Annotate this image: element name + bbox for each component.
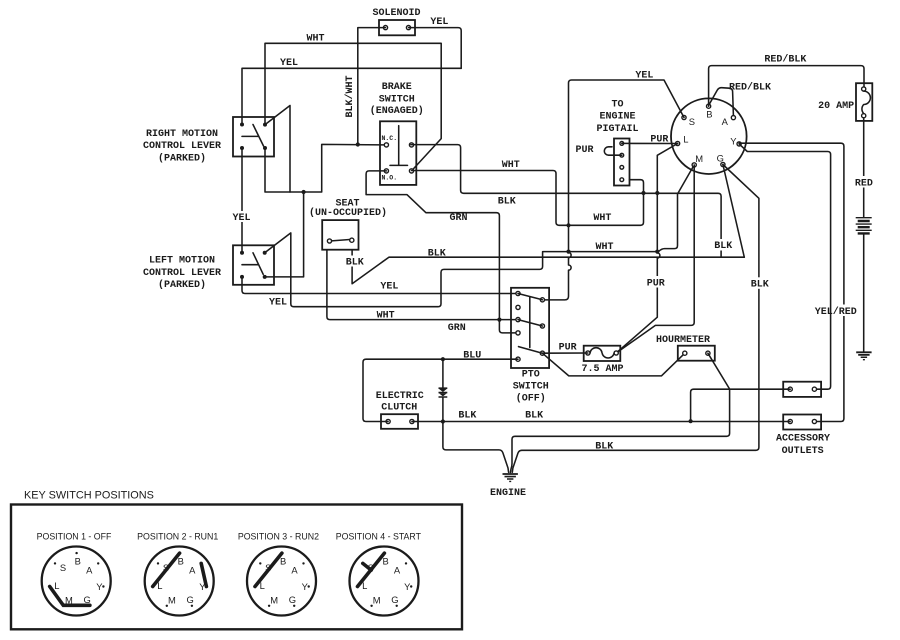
junction dot lever bus	[302, 190, 306, 194]
battery	[856, 217, 872, 235]
wire PUR pigtail t1 to key L	[622, 142, 678, 144]
wire WHT left lever arm to M bus	[265, 165, 695, 307]
junction dot outlet1 on BLK	[689, 419, 693, 423]
wire RED fuse to battery	[863, 118, 865, 218]
svg-text:N.O.: N.O.	[382, 175, 398, 182]
svg-text:KEY SWITCH POSITIONS: KEY SWITCH POSITIONS	[24, 490, 154, 502]
electric clutch	[381, 414, 418, 429]
label TO ENGINE PIGTAIL	[596, 100, 638, 135]
hourmeter	[678, 346, 715, 361]
wire PTO bottom right to hourmeter left	[542, 353, 684, 376]
wire engine funnel right	[512, 450, 522, 472]
svg-text:PIGTAIL: PIGTAIL	[596, 124, 638, 135]
svg-text:RED/BLK: RED/BLK	[729, 82, 771, 94]
svg-text:PUR: PUR	[559, 342, 577, 353]
label LEFT MOTION CONTROL LEVER (PARKED)	[143, 256, 221, 292]
label ACCESSORY OUTLETS	[776, 433, 830, 457]
label ELECTRIC CLUTCH	[376, 391, 424, 414]
junction dot GRN	[497, 318, 501, 322]
svg-text:GRN: GRN	[448, 323, 466, 334]
wire outlet1 left to BLK bus	[691, 389, 791, 421]
svg-text:B: B	[75, 555, 81, 566]
svg-text:S: S	[689, 116, 695, 127]
wire YEL key Y to accessory outlet 1	[739, 144, 831, 389]
svg-text:YEL/RED: YEL/RED	[815, 306, 857, 318]
svg-text:WHT: WHT	[502, 160, 520, 171]
wire BLK seat right down and right	[352, 250, 721, 284]
wire YEL bus to right lever TL	[242, 68, 461, 124]
key terminal labels	[683, 109, 737, 164]
svg-text:(ENGAGED): (ENGAGED)	[370, 105, 424, 117]
ground engine	[503, 473, 518, 482]
svg-text:HOURMETER: HOURMETER	[656, 335, 710, 346]
key terminal L	[676, 141, 680, 145]
wire RED/BLK jumper key B to key A	[709, 88, 733, 116]
svg-text:POSITION 1 - OFF: POSITION 1 - OFF	[37, 532, 112, 542]
wire right lever arm to parked node	[265, 106, 290, 193]
svg-text:(UN-OCCUPIED): (UN-OCCUPIED)	[309, 207, 387, 219]
wire node line y193 from brake NC right	[411, 145, 745, 258]
svg-text:A: A	[722, 116, 729, 127]
junction dot t4 wire on PUR line	[641, 191, 645, 195]
brake switch	[380, 121, 416, 185]
wire BLK clutch right to outlet2	[412, 421, 790, 423]
svg-text:BLK: BLK	[346, 258, 364, 269]
svg-text:PUR: PUR	[575, 145, 593, 156]
svg-text:YEL: YEL	[280, 58, 298, 69]
key position circle 3 RUN2	[247, 547, 316, 616]
wire battery to ground	[863, 235, 865, 352]
svg-text:L: L	[683, 133, 688, 144]
svg-text:BRAKE: BRAKE	[382, 82, 412, 93]
accessory outlet 2	[783, 415, 821, 430]
engine pigtail connector	[614, 139, 630, 186]
key position circle 1 OFF	[42, 547, 111, 616]
svg-text:A: A	[86, 565, 93, 576]
svg-text:L: L	[54, 580, 59, 591]
svg-text:20 AMP: 20 AMP	[818, 101, 854, 112]
svg-text:POSITION 4 - START: POSITION 4 - START	[336, 532, 422, 542]
wire PUR fuse left to PTO	[542, 352, 588, 354]
label YEL/RED	[813, 305, 859, 318]
fuse 20 AMP	[856, 83, 872, 121]
svg-text:YEL: YEL	[269, 298, 287, 309]
svg-text:BLK: BLK	[525, 411, 543, 422]
svg-text:M: M	[270, 594, 278, 605]
junction dot BLK/WHT on NC line	[356, 142, 360, 146]
wire BLK key G steep to elbow	[723, 165, 744, 258]
svg-text:GRN: GRN	[449, 213, 467, 224]
svg-text:S: S	[60, 562, 66, 573]
label RED	[851, 176, 877, 189]
right motion lever switch	[233, 117, 274, 157]
key terminal Y	[737, 142, 741, 146]
svg-text:YEL: YEL	[635, 71, 653, 82]
svg-text:BLK: BLK	[595, 442, 613, 453]
junction dot PUR on y193	[655, 191, 659, 195]
svg-text:YEL: YEL	[232, 213, 250, 224]
svg-text:PTO: PTO	[522, 369, 540, 380]
svg-text:WHT: WHT	[306, 34, 324, 45]
svg-text:M: M	[695, 153, 703, 164]
label BLK elbow	[711, 239, 734, 252]
solenoid	[372, 8, 420, 35]
svg-text:A: A	[394, 565, 401, 576]
fuse 7.5 AMP	[584, 346, 621, 361]
wire GRN branch to PTO t4	[499, 320, 518, 333]
wire PUR key L to 7.5A fuse	[616, 144, 677, 354]
junction dot PUR on WHT line	[655, 250, 659, 254]
svg-text:M: M	[373, 594, 381, 605]
svg-text:SWITCH: SWITCH	[513, 382, 549, 393]
svg-text:G: G	[391, 594, 398, 605]
key terminal M	[692, 163, 696, 167]
svg-text:G: G	[717, 152, 724, 163]
svg-text:(PARKED): (PARKED)	[158, 153, 206, 165]
svg-text:SOLENOID: SOLENOID	[372, 8, 420, 19]
wire key M to 7.5A fuse	[616, 165, 694, 353]
svg-text:7.5 AMP: 7.5 AMP	[581, 364, 623, 375]
key terminal S	[682, 115, 686, 119]
junction dot diode on BLK	[441, 419, 445, 423]
svg-text:BLU: BLU	[463, 351, 481, 362]
svg-text:A: A	[189, 565, 196, 576]
key position circle 2 RUN1	[145, 547, 214, 616]
svg-text:WHT: WHT	[593, 213, 611, 224]
key position circle 4 START	[350, 547, 419, 616]
diode	[439, 359, 448, 421]
svg-text:M: M	[168, 594, 176, 605]
svg-text:CLUTCH: CLUTCH	[381, 403, 417, 414]
svg-text:OUTLETS: OUTLETS	[782, 446, 824, 457]
wire YEL to key S with long vertical	[542, 80, 684, 300]
wire left lever BR up to junction	[265, 192, 304, 277]
ground battery	[856, 351, 871, 360]
accessory outlet 1	[783, 382, 821, 397]
wire right lever BR to junction bus	[265, 144, 386, 192]
label RIGHT MOTION CONTROL LEVER (PARKED)	[143, 129, 221, 165]
svg-text:(PARKED): (PARKED)	[158, 279, 206, 291]
svg-text:BLK: BLK	[498, 197, 516, 208]
svg-text:SWITCH: SWITCH	[379, 94, 415, 105]
junction dot S-wire on WHT M line	[566, 250, 570, 254]
svg-text:B: B	[706, 109, 712, 120]
wire BLK diode bus to engine ground	[443, 422, 509, 473]
svg-text:Y: Y	[730, 136, 737, 147]
left motion lever switch	[233, 245, 274, 284]
svg-text:BLK: BLK	[751, 280, 769, 291]
svg-text:BLK: BLK	[714, 241, 732, 252]
wire BLU PTO t5 to clutch left	[363, 359, 518, 421]
junction dot BLU diode	[441, 357, 445, 361]
wire GRN seat left to PTO t3	[327, 250, 518, 320]
svg-text:(OFF): (OFF)	[516, 392, 546, 404]
svg-text:RED: RED	[855, 178, 873, 189]
label SEAT (UN-OCCUPIED)	[309, 199, 387, 220]
svg-text:YEL: YEL	[430, 17, 448, 28]
svg-text:YEL: YEL	[380, 281, 398, 292]
svg-text:ENGINE: ENGINE	[599, 112, 635, 123]
svg-text:A: A	[291, 565, 298, 576]
svg-text:POSITION 2 - RUN1: POSITION 2 - RUN1	[137, 532, 218, 542]
wire YEL solenoid right down to YEL bus	[409, 28, 462, 69]
svg-text:RED/BLK: RED/BLK	[764, 54, 806, 66]
svg-text:PUR: PUR	[650, 134, 668, 145]
wire hourmeter right to engine ground bus	[510, 353, 729, 472]
wire WHT brake NO right to pigtail t4	[412, 171, 644, 226]
svg-text:BLK: BLK	[428, 248, 446, 259]
wire WHT top bus to right lever TR	[265, 43, 441, 171]
svg-text:G: G	[289, 594, 296, 605]
svg-text:BLK: BLK	[458, 411, 476, 422]
panel box	[11, 505, 462, 630]
label BRAKE SWITCH (ENGAGED)	[370, 82, 424, 117]
wire GRN brake NO left to PTO	[366, 171, 499, 320]
svg-text:CONTROL LEVER: CONTROL LEVER	[143, 141, 221, 152]
label PUR	[644, 276, 668, 289]
label PTO SWITCH (OFF)	[513, 369, 549, 404]
wire BLK/WHT solenoid left to brake NC line	[358, 28, 386, 145]
svg-text:G: G	[83, 594, 90, 605]
svg-text:CONTROL LEVER: CONTROL LEVER	[143, 268, 221, 279]
label BLK seat stub	[344, 256, 365, 269]
svg-text:LEFT MOTION: LEFT MOTION	[149, 256, 215, 267]
key terminal G	[721, 162, 725, 166]
wire YEL/RED key Y to accessory outlet 2	[739, 143, 844, 421]
svg-text:BLK/WHT: BLK/WHT	[344, 75, 356, 117]
svg-text:WHT: WHT	[377, 310, 395, 321]
wire PUR pigtail t2 hook	[604, 147, 622, 155]
key switch circle	[671, 98, 747, 174]
svg-text:G: G	[186, 594, 193, 605]
svg-text:TO: TO	[611, 100, 623, 111]
PTO switch	[511, 288, 549, 368]
svg-text:PUR: PUR	[647, 278, 665, 289]
seat switch	[322, 220, 358, 250]
junction dot S-wire on WHT pigtail wire	[566, 223, 570, 227]
svg-text:N.C.: N.C.	[382, 135, 398, 142]
wire YEL left lever BL to PTO t1	[242, 277, 518, 294]
label BLK	[747, 277, 771, 290]
label YEL on vertical	[232, 211, 252, 224]
svg-text:ACCESSORY: ACCESSORY	[776, 433, 830, 444]
wire RED/BLK key B to 20A fuse	[709, 66, 864, 107]
svg-text:POSITION 3 - RUN2: POSITION 3 - RUN2	[238, 532, 319, 542]
svg-text:WHT: WHT	[595, 242, 613, 253]
svg-text:ELECTRIC: ELECTRIC	[376, 391, 424, 402]
wire YEL right lever BL down to left lever TL	[241, 148, 243, 253]
svg-text:RIGHT MOTION: RIGHT MOTION	[146, 129, 218, 140]
wire BLK key G to engine ground bus	[522, 165, 759, 451]
svg-text:ENGINE: ENGINE	[490, 488, 526, 499]
key terminal B	[707, 104, 711, 108]
key terminal A	[731, 116, 735, 120]
